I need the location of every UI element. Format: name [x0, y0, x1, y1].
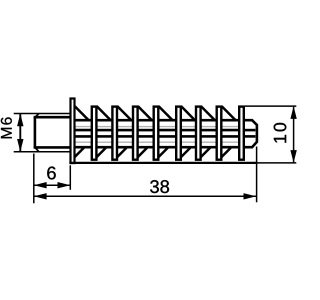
- dimension 6: dimension line with arrows: [34, 184, 71, 186]
- segment S5 top web diagonal: [159, 106, 173, 120]
- fin 4: [154, 107, 159, 160]
- label 38: [150, 180, 169, 193]
- segment S3 bottom web diagonal: [116, 148, 126, 158]
- fin 2: [112, 107, 117, 160]
- tip outline (chamfered bullet end): [244, 120, 257, 147]
- dimension 10: dimension line with arrows: [293, 106, 295, 163]
- segment S3 bars: [117, 120, 133, 147]
- fin 3: [133, 107, 138, 160]
- fin 1: [92, 107, 97, 160]
- segment S4 bottom web diagonal: [137, 148, 147, 158]
- segment S1 top web diagonal: [75, 106, 89, 120]
- flange collar: [71, 99, 75, 164]
- dimension 10: bottom extension line (thick under part): [69, 162, 257, 164]
- segment S7 bars: [201, 120, 217, 147]
- fin 5: [176, 107, 181, 160]
- stud end chamfers: [35, 114, 39, 118]
- dimension 6: extension lines: [33, 154, 35, 204]
- segment S4 bars: [138, 120, 154, 147]
- label 6: [47, 167, 55, 180]
- label M6 (rotated): [1, 117, 12, 138]
- segment S2 bottom web diagonal: [96, 148, 106, 158]
- tip core lines: [244, 129, 255, 132]
- fin 6: [196, 107, 201, 160]
- segment S6 bottom web diagonal: [180, 148, 190, 158]
- segment S3 top web diagonal: [117, 106, 131, 120]
- segment S8 bars: [222, 120, 240, 147]
- segment S8 bottom web diagonal: [221, 148, 231, 158]
- segment S2 top web diagonal: [97, 106, 111, 120]
- threaded stud M6: root outline: [34, 116, 71, 119]
- segment S7 top web diagonal: [201, 106, 215, 120]
- dimension M6: dimension line with arrows: [19, 114, 21, 152]
- segment S2 bars: [97, 120, 113, 147]
- segment S1 bottom web diagonal: [74, 148, 84, 158]
- segment S6 top web diagonal: [181, 106, 195, 120]
- label 10 (rotated): [274, 123, 287, 143]
- segment S1 bars: [75, 120, 92, 147]
- segment S6 bars: [181, 120, 196, 147]
- dimension 38: dimension line with arrows: [34, 195, 256, 197]
- dimension 10: top extension line: [245, 105, 296, 107]
- dimension 38: right extension line: [256, 147, 258, 203]
- threaded stud M6: crest thin lines: [14, 113, 71, 115]
- fin 8: [239, 107, 244, 160]
- segment S4 top web diagonal: [138, 106, 152, 120]
- segment S5 bottom web diagonal: [158, 148, 168, 158]
- segment S8 top web diagonal: [222, 106, 236, 120]
- fin 7: [217, 107, 222, 160]
- segment S5 bars: [159, 120, 177, 147]
- segment S7 bottom web diagonal: [200, 148, 210, 158]
